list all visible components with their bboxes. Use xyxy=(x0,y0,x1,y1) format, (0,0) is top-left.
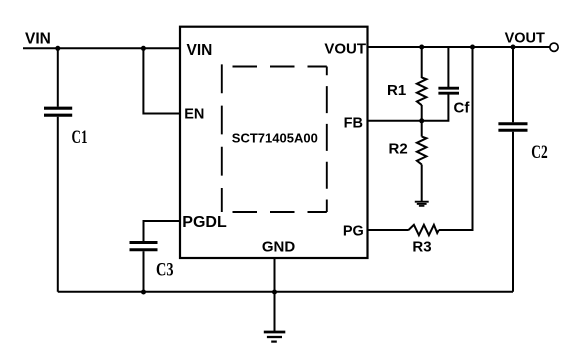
svg-text:VOUT: VOUT xyxy=(505,30,545,46)
svg-text:FB: FB xyxy=(344,115,363,131)
svg-text:C3: C3 xyxy=(156,260,174,280)
svg-text:PG: PG xyxy=(343,223,364,239)
svg-text:Cf: Cf xyxy=(454,100,471,117)
svg-text:C1: C1 xyxy=(72,128,88,148)
svg-text:C2: C2 xyxy=(531,143,547,163)
svg-text:EN: EN xyxy=(184,106,204,122)
svg-text:PGDL: PGDL xyxy=(182,214,227,231)
svg-text:R1: R1 xyxy=(387,82,406,99)
svg-text:SCT71405A00: SCT71405A00 xyxy=(232,131,318,146)
svg-text:R2: R2 xyxy=(389,141,408,158)
svg-text:VOUT: VOUT xyxy=(324,41,366,58)
svg-text:R3: R3 xyxy=(412,239,431,256)
svg-text:GND: GND xyxy=(262,239,296,256)
svg-text:VIN: VIN xyxy=(25,30,51,47)
svg-text:VIN: VIN xyxy=(187,42,213,59)
